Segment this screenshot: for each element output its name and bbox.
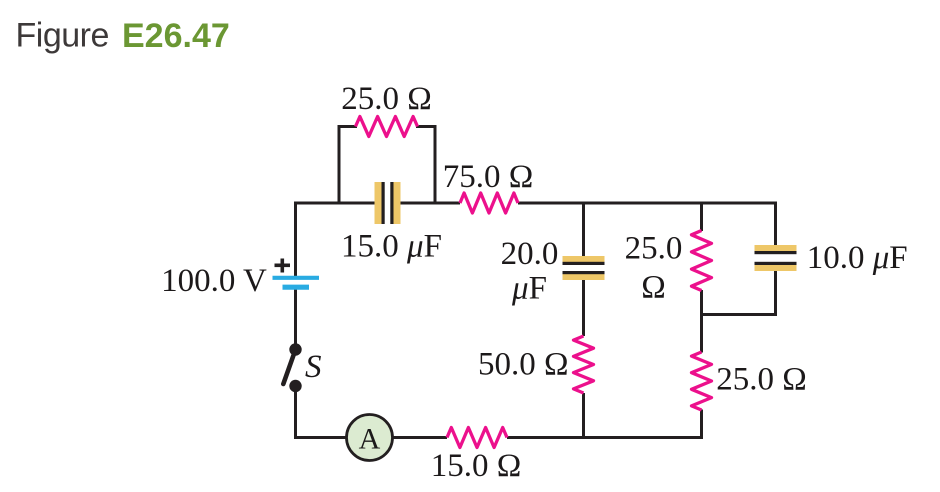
svg-text:75.0 Ω: 75.0 Ω — [443, 159, 534, 195]
svg-text:A: A — [359, 422, 381, 455]
svg-text:Figure: Figure — [16, 17, 109, 55]
svg-text:25.0: 25.0 — [625, 231, 683, 267]
svg-text:25.0 Ω: 25.0 Ω — [716, 362, 807, 398]
svg-text:S: S — [305, 349, 322, 385]
svg-text:10.0 μF: 10.0 μF — [807, 240, 908, 276]
svg-text:20.0: 20.0 — [501, 236, 559, 272]
svg-text:μF: μF — [511, 271, 547, 307]
svg-text:50.0 Ω: 50.0 Ω — [478, 347, 569, 383]
svg-text:Ω: Ω — [641, 270, 666, 306]
svg-text:E26.47: E26.47 — [122, 17, 230, 55]
svg-text:15.0 Ω: 15.0 Ω — [431, 448, 522, 484]
svg-text:25.0 Ω: 25.0 Ω — [341, 81, 432, 117]
svg-text:100.0 V: 100.0 V — [161, 263, 267, 299]
svg-text:15.0 μF: 15.0 μF — [341, 229, 442, 265]
